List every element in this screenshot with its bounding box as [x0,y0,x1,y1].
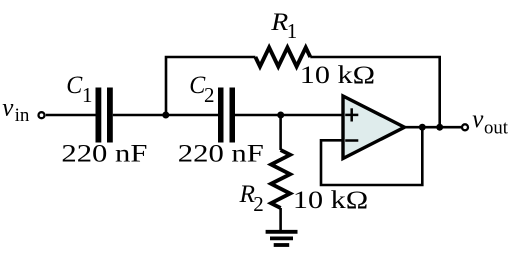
svg-text:R: R [270,9,288,36]
wire input to C1 [46,114,96,117]
wire C1 to C2 [113,114,218,117]
capacitor C2 [218,88,224,143]
feedback wire from output down, under op-amp, to minus input [321,127,422,185]
output terminal v_out [462,124,468,130]
svg-text:in: in [15,105,30,126]
resistor R1 [255,48,310,67]
node A (junction to R1) [162,112,169,119]
output wire [405,126,462,129]
wire node A up and top wire to R1 [166,57,255,115]
resistor R2 [271,150,290,208]
wire C2 to op-amp + input [235,114,342,117]
svg-text:1: 1 [287,19,298,43]
op-amp minus input mark [345,139,358,142]
ground [266,230,298,234]
svg-text:v: v [2,95,14,122]
wire node B down to R2 [279,115,282,150]
svg-text:out: out [484,118,509,139]
svg-text:1: 1 [82,83,93,107]
node B (junction to R2) [277,112,284,119]
input terminal v_in [39,112,45,118]
junction to R1 [436,124,443,131]
svg-text:10 kΩ: 10 kΩ [300,62,375,89]
svg-text:v: v [472,106,484,133]
op-amp U1 [343,96,405,159]
svg-text:220 nF: 220 nF [61,141,147,168]
svg-text:C: C [66,72,82,99]
svg-text:2: 2 [204,83,215,107]
wire R2 to ground [279,208,282,232]
capacitor C1 [96,88,102,143]
wire R1 to output node [310,57,439,127]
svg-text:2: 2 [253,192,263,216]
op-amp plus input mark [345,108,358,121]
svg-text:10 kΩ: 10 kΩ [293,187,368,214]
svg-text:220 nF: 220 nF [178,141,264,168]
junction feedback [419,124,426,131]
